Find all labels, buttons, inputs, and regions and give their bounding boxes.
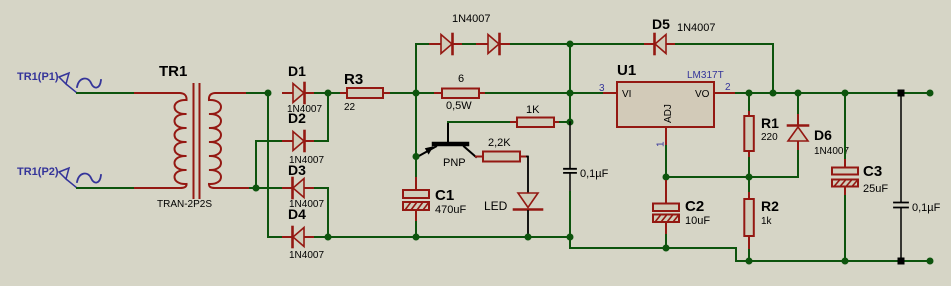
node VO D6 [795,90,802,97]
wire + node to R3 [328,92,341,94]
wire 1K to node C [560,121,570,123]
diode D5 [645,16,716,54]
svg-text:LED: LED [484,199,508,213]
wire base to 1K [448,121,511,123]
transistor Q1 PNP [417,122,476,169]
wire node B to VI [570,92,602,94]
svg-text:TR1: TR1 [159,63,187,80]
wire D2 to + node [315,93,328,141]
resistor R2 [744,177,779,261]
node mid gnd [567,234,574,241]
node gnd end [927,258,934,265]
node ADJ R1/R2 [746,174,753,181]
wire ground rail bridge to mid [328,236,570,238]
svg-text:C3: C3 [863,163,882,180]
node C [567,119,574,126]
node emitter [413,153,420,160]
capacitor 0,1uF input (black) [564,122,609,192]
diode series B 1N4007 [452,13,511,54]
svg-text:PNP: PNP [443,157,466,169]
svg-text:1k: 1k [761,216,773,227]
wire D5 to VO rail [676,44,773,93]
wire node A up and top rail left [416,44,430,93]
node secondary top [265,90,272,97]
terminal TR1(P1) [17,71,101,93]
diode D1 [283,63,322,115]
capacitor C1 470uF [403,178,466,222]
svg-text:VO: VO [695,89,710,100]
wire ADJ node right [666,176,798,178]
svg-text:D4: D4 [288,206,306,222]
wire LED to ground rail (black) [527,211,529,237]
terminal TR1(P2) [17,166,101,188]
svg-text:D1: D1 [288,63,306,79]
svg-text:1N4007: 1N4007 [677,22,716,34]
svg-text:2,2K: 2,2K [488,137,511,149]
wire C2 to lower rail [665,235,667,248]
node VO R1 [746,90,753,97]
capacitor C3 25uF [832,93,888,261]
wire C1 to ground rail [415,222,417,237]
resistor 2,2K [476,137,527,162]
node 0,1uF gnd (square) [898,258,905,265]
svg-text:1: 1 [656,141,667,147]
diode series A 1N4007 [430,34,463,54]
node B [567,90,574,97]
svg-text:D6: D6 [814,127,832,143]
wire ADJ down [665,146,667,181]
resistor R1 [744,93,779,177]
svg-text:0,1µF: 0,1µF [580,168,609,180]
svg-text:0,5W: 0,5W [446,100,472,112]
node VO 0,1uF (square) [898,90,905,97]
wire node A to resistor 6 [416,92,435,94]
svg-text:2: 2 [725,82,731,93]
diode D2 [283,110,324,166]
svg-text:D5: D5 [652,16,670,32]
svg-text:U1: U1 [617,62,636,79]
node bridge + [325,90,332,97]
node R2 gnd [746,258,753,265]
wire VO rail [736,92,930,94]
transformer TR1 [135,84,250,198]
svg-text:VI: VI [622,89,631,100]
svg-text:10uF: 10uF [685,215,710,227]
node A unregulated + [413,90,420,97]
wire D4 to - node [315,236,328,238]
wire node B down to node C [569,93,571,122]
capacitor 0,1uF output (black) [894,93,941,261]
wire top node to D5 [570,43,645,45]
svg-text:25uF: 25uF [863,183,888,195]
svg-text:470uF: 470uF [435,204,466,216]
diode D4 [283,206,324,261]
svg-text:R2: R2 [761,198,779,214]
wire 2,2K to LED (black) [527,157,528,194]
node VO end [927,90,934,97]
wire between series diodes [463,43,477,45]
capacitor C2 10uF [653,181,710,235]
svg-text:TR1(P2): TR1(P2) [17,166,59,178]
node C2 gnd [663,245,670,252]
svg-text:C1: C1 [435,187,454,204]
svg-text:1N4007: 1N4007 [289,250,324,261]
node VO C3 [842,90,849,97]
wire node top to node B [569,44,571,93]
node C3 gnd [842,258,849,265]
svg-text:6: 6 [458,73,464,85]
node C1 gnd [413,234,420,241]
svg-text:220: 220 [761,132,778,143]
svg-text:1K: 1K [526,104,540,116]
wire P1 to transformer [77,92,135,94]
node secondary bottom [253,185,260,192]
diode D3 [283,162,324,210]
svg-text:D2: D2 [288,110,306,126]
diode D6 [788,93,849,177]
LED D7 [484,193,542,213]
wire bridge left vertical [268,93,283,237]
svg-text:TRAN-2P2S: TRAN-2P2S [157,199,212,210]
wire D3 to - node [315,188,328,237]
node VO D5 [770,90,777,97]
resistor R3 [341,71,391,113]
node ADJ [663,174,670,181]
resistor 6 0,5W [435,73,486,112]
wire D2-D3 left vertical [256,141,283,188]
svg-text:D3: D3 [288,162,306,178]
wire P2 to transformer [77,187,135,189]
node LED gnd [525,234,532,241]
op-amp U1 LM317 [599,62,736,147]
wire secondary top to bridge [247,92,268,94]
svg-text:1N4007: 1N4007 [452,13,491,25]
wire gnd step mid [570,237,930,261]
node top [567,41,574,48]
svg-text:R3: R3 [344,71,363,88]
wire series diodes to top node [511,43,570,45]
svg-text:R1: R1 [761,115,779,131]
wire D1 to node [315,92,328,94]
svg-text:0,1µF: 0,1µF [912,202,941,214]
wire emitter node to C1 [415,93,417,178]
svg-text:LM317T: LM317T [687,70,724,81]
svg-text:C2: C2 [685,198,704,215]
svg-text:ADJ: ADJ [663,104,674,123]
node bridge - [325,234,332,241]
svg-text:TR1(P1): TR1(P1) [17,71,59,83]
svg-text:22: 22 [344,102,356,113]
wire secondary bottom to node [250,187,256,189]
wire R3 to node A [391,92,416,94]
resistor 1K [511,104,560,127]
wire 0,1uF to gnd [569,192,571,237]
wire resistor 6 to node B [486,92,570,94]
